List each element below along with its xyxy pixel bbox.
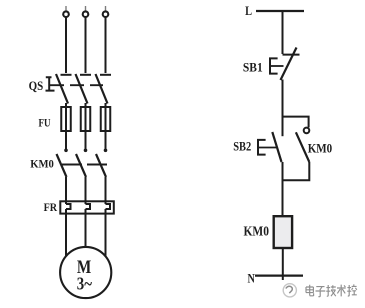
wire L2 KM0 to FR bbox=[85, 177, 87, 204]
thermal relay FR heater 3 bbox=[106, 204, 111, 209]
control line N wire bbox=[255, 275, 303, 277]
svg-text:KM0: KM0 bbox=[308, 140, 333, 155]
svg-text:FU: FU bbox=[39, 115, 51, 129]
fuse FU 2 bbox=[81, 107, 91, 131]
fuse FU 3 bbox=[101, 107, 111, 131]
terminal circle L2 bbox=[83, 11, 89, 17]
watermark logo bbox=[283, 284, 296, 297]
contact KM0 aux blade bbox=[296, 132, 309, 162]
wire L1 top bbox=[65, 17, 67, 73]
pushbutton SB2 blade bbox=[272, 132, 281, 162]
switch QS pole 1 blade bbox=[56, 74, 68, 104]
wire L3 KM0 to FR bbox=[105, 177, 107, 204]
pushbutton SB1 blade bbox=[281, 48, 297, 81]
watermark text dian zi ji shu kong bbox=[306, 284, 357, 296]
svg-text:SB1: SB1 bbox=[243, 60, 263, 74]
svg-text:KM0: KM0 bbox=[30, 158, 54, 170]
coil KM0 box bbox=[274, 216, 292, 248]
wire KM0 aux branch bottom bbox=[283, 162, 310, 180]
svg-text:FR: FR bbox=[44, 200, 58, 214]
pushbutton SB1 fixed contact bar bbox=[283, 54, 300, 56]
fuse FU 1 bbox=[61, 107, 71, 131]
contactor KM0 linkage dashed line bbox=[62, 164, 110, 166]
svg-text:3~: 3~ bbox=[77, 273, 93, 293]
switch QS pole 3 fixed contact bbox=[100, 74, 111, 76]
wire L2 FR to motor bbox=[85, 209, 87, 247]
contactor KM0 pole 2 blade bbox=[76, 154, 86, 177]
svg-text:L: L bbox=[245, 4, 252, 18]
control line L wire bbox=[256, 10, 304, 12]
contact KM0 aux fixed terminal circle bbox=[304, 128, 310, 134]
wire SB2 to coil bbox=[282, 162, 284, 217]
contactor KM0 pole 3 fixed contact dot bbox=[104, 149, 108, 153]
terminal stub L2 bbox=[85, 6, 87, 11]
wire L to SB1 bbox=[282, 11, 284, 54]
terminal stub L1 bbox=[65, 6, 67, 11]
wire L1 KM0 to FR bbox=[65, 177, 67, 204]
switch QS pole 3 blade bbox=[96, 74, 108, 104]
wire L2 QS to KM0 bbox=[85, 103, 87, 150]
terminal circle L1 bbox=[63, 11, 69, 17]
svg-text:QS: QS bbox=[29, 79, 44, 93]
switch QS linkage dashed line bbox=[50, 84, 103, 86]
pushbutton SB1 actuator bbox=[269, 58, 278, 75]
wire coil to N bbox=[282, 248, 284, 280]
wire branch to KM0 aux bbox=[283, 117, 309, 128]
contactor KM0 pole 1 fixed contact dot bbox=[64, 149, 68, 153]
svg-text:KM0: KM0 bbox=[244, 224, 270, 239]
wire L1 FR to motor bbox=[65, 209, 67, 257]
contactor KM0 pole 3 blade bbox=[96, 154, 106, 177]
thermal relay FR heater 2 bbox=[86, 204, 91, 209]
terminal stub L3 bbox=[105, 6, 107, 11]
svg-text:N: N bbox=[248, 271, 255, 285]
wire L2 top bbox=[85, 17, 87, 73]
wire L1 QS to KM0 bbox=[65, 103, 67, 150]
switch QS pole 1 fixed contact bbox=[61, 74, 72, 76]
pushbutton SB2 plunger link bbox=[258, 147, 276, 149]
svg-text:SB2: SB2 bbox=[233, 139, 251, 153]
wire L3 top bbox=[105, 17, 107, 73]
switch QS pole 2 fixed contact bbox=[80, 74, 91, 76]
wire L3 QS to KM0 bbox=[105, 103, 107, 150]
contactor KM0 pole 1 blade bbox=[57, 154, 67, 177]
wire SB1 to SB2 bbox=[282, 80, 284, 137]
thermal relay FR heater 1 bbox=[66, 204, 71, 209]
thermal relay FR box bbox=[60, 201, 114, 213]
wire L3 FR to motor bbox=[105, 209, 107, 257]
pushbutton SB2 actuator bbox=[257, 139, 266, 156]
motor M circle bbox=[60, 247, 111, 298]
switch QS handle bracket bbox=[46, 77, 55, 90]
terminal circle L3 bbox=[103, 11, 109, 17]
pushbutton SB1 plunger link bbox=[270, 65, 284, 67]
switch QS pole 2 blade bbox=[76, 74, 88, 104]
contactor KM0 pole 2 fixed contact dot bbox=[84, 149, 88, 153]
